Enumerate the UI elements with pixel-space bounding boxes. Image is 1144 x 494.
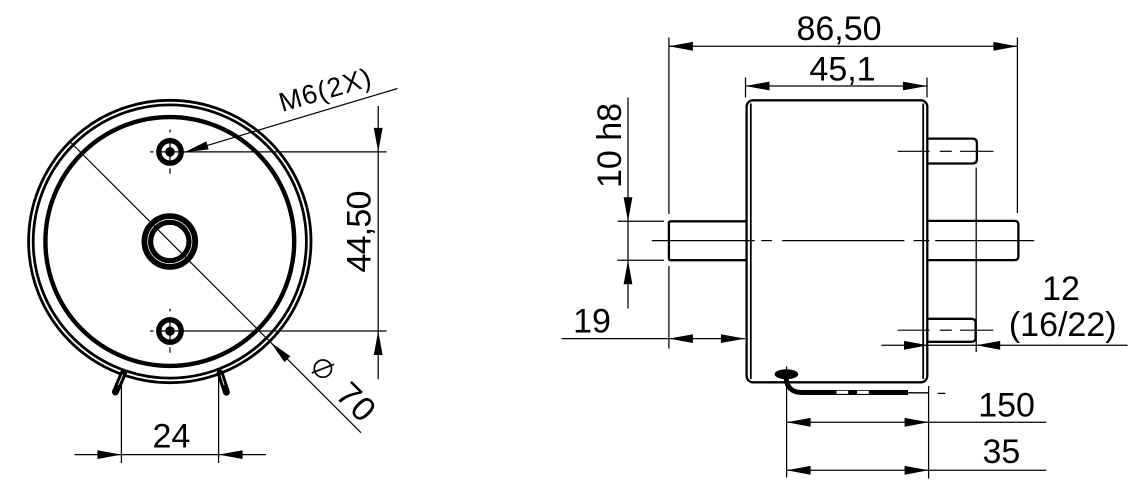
svg-text:12: 12 <box>1042 270 1080 308</box>
svg-text:19: 19 <box>573 303 611 341</box>
svg-text:35: 35 <box>982 433 1020 471</box>
svg-text:24: 24 <box>152 418 190 456</box>
svg-text:150: 150 <box>978 387 1035 425</box>
svg-text:(16/22): (16/22) <box>1009 306 1117 344</box>
svg-text:10 h8: 10 h8 <box>591 103 629 188</box>
svg-text:86,50: 86,50 <box>796 10 881 48</box>
svg-text:44,50: 44,50 <box>341 191 379 272</box>
svg-text:45,1: 45,1 <box>809 51 875 89</box>
